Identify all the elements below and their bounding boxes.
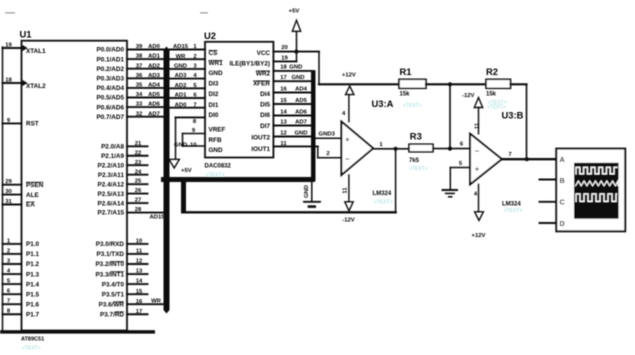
svg-text:39: 39 — [136, 44, 143, 50]
U1 pin 24 P2.3/A11 — [98, 169, 148, 179]
svg-text:U1: U1 — [20, 29, 32, 40]
svg-text:DI6: DI6 — [260, 112, 270, 119]
svg-text:C: C — [560, 198, 565, 207]
svg-text:30: 30 — [5, 189, 12, 195]
U1 pin 1 P1.0 — [3, 238, 40, 248]
svg-text:P1.6: P1.6 — [26, 301, 40, 308]
resistor R2 15k — [486, 66, 511, 98]
scan artifact dots — [5, 12, 208, 13]
U1 pin 11 P3.1/TXD — [97, 249, 148, 259]
U3:B supply TEXT placeholder — [487, 104, 506, 110]
U1 pin 10 P3.0/RXD — [96, 239, 148, 249]
junction +5V and VCC — [294, 50, 298, 54]
U3:A output wire pin 1 — [373, 142, 409, 149]
svg-text:21: 21 — [135, 141, 142, 147]
svg-text:VREF: VREF — [209, 127, 226, 134]
svg-text:<TEXT>: <TEXT> — [22, 346, 41, 352]
svg-text:26: 26 — [135, 188, 142, 194]
svg-text:R3: R3 — [410, 131, 422, 142]
svg-text:P3.3/INT1: P3.3/INT1 — [95, 271, 124, 278]
svg-text:PSEN: PSEN — [26, 182, 44, 189]
svg-text:+5V: +5V — [181, 168, 192, 174]
svg-text:AD15: AD15 — [149, 215, 165, 221]
U1 pin 12 P3.2/INT0 — [95, 259, 147, 269]
svg-text:20: 20 — [281, 45, 288, 51]
U1 pin 4 P1.3 — [3, 268, 40, 278]
U1 pin 5 P1.4 — [3, 279, 40, 289]
scope screen with waveforms — [574, 163, 619, 219]
svg-text:18: 18 — [5, 77, 12, 83]
svg-text:AD0: AD0 — [148, 44, 161, 50]
svg-text:11: 11 — [475, 122, 481, 129]
U1 pin 8 P1.7 — [3, 309, 40, 319]
U2 pin 9 RFB loop wire — [183, 128, 206, 146]
svg-text:P0.1/AD1: P0.1/AD1 — [96, 56, 124, 63]
U1 pin 35 P0.4/AD4 with net AD4 wire to bus — [96, 83, 163, 93]
U1 pin 16 P3.6/WR — [99, 299, 164, 309]
bottom border bar — [0, 330, 155, 333]
svg-text:24: 24 — [135, 169, 142, 175]
U1 pin 30 ALE — [3, 189, 39, 199]
svg-text:<TEXT>: <TEXT> — [504, 208, 523, 214]
svg-text:P3.5/T1: P3.5/T1 — [102, 291, 125, 298]
power +12V arrow below U3:B — [472, 212, 486, 239]
wire R2 to U3:B output feedback — [511, 84, 527, 159]
svg-text:-12V: -12V — [342, 217, 355, 223]
svg-text:P3.0/RXD: P3.0/RXD — [96, 241, 125, 248]
svg-text:P3.7/RD: P3.7/RD — [100, 311, 124, 318]
svg-text:AD5: AD5 — [295, 98, 308, 104]
power -12V arrow below U3:A — [342, 202, 355, 224]
svg-text:12: 12 — [280, 130, 287, 136]
svg-text:GND: GND — [174, 142, 187, 148]
svg-text:<TEXT>: <TEXT> — [487, 104, 506, 110]
U1 pin 34 P0.5/AD5 with net AD5 wire to bus — [96, 92, 163, 102]
wire bus to U2 pin 1 net AD15 — [170, 44, 206, 50]
svg-text:GND: GND — [174, 64, 187, 70]
svg-text:35: 35 — [136, 83, 143, 89]
svg-text:AD7: AD7 — [295, 119, 308, 125]
svg-text:VCC: VCC — [257, 50, 271, 57]
svg-text:LM324: LM324 — [373, 191, 392, 197]
wire -12V rail horizontal — [184, 211, 396, 213]
U2 pin label WR1 — [209, 60, 224, 67]
wire feedback node down to R3 output node — [449, 84, 451, 148]
svg-text:5: 5 — [459, 161, 463, 167]
svg-text:AD2: AD2 — [148, 63, 161, 69]
svg-text:AD5: AD5 — [148, 92, 161, 98]
svg-text:27: 27 — [135, 198, 142, 204]
svg-text:P2.5/A13: P2.5/A13 — [98, 191, 125, 198]
svg-text:AD1: AD1 — [175, 93, 188, 99]
svg-text:25: 25 — [135, 179, 142, 185]
junction U3:A output — [394, 147, 398, 151]
U2 pin label DI0 — [209, 112, 219, 119]
svg-text:IOUT2: IOUT2 — [251, 135, 270, 142]
U2 value TEXT placeholder — [206, 173, 225, 179]
svg-text:15k: 15k — [486, 91, 497, 97]
svg-text:DAC0832: DAC0832 — [205, 164, 232, 170]
U1 pin 18 XTAL2 — [3, 77, 47, 90]
svg-text:P3.1/TXD: P3.1/TXD — [97, 251, 125, 258]
svg-text:<TEXT>: <TEXT> — [403, 103, 422, 109]
power -12V arrow above U3:B — [462, 93, 483, 108]
scope channel labels A B C D — [560, 155, 565, 228]
U2 pin label GND — [209, 147, 224, 154]
svg-text:23: 23 — [135, 160, 142, 166]
U2 pin label DI5 — [260, 101, 270, 108]
svg-text:+5V: +5V — [289, 9, 300, 15]
U1 pin 15 P3.5/T1 — [102, 289, 148, 299]
bus GND vertical right of U2 — [311, 70, 316, 181]
U2 pin 13 wire net AD7 — [273, 119, 311, 125]
U1 pin 32 P0.7/AD7 with net AD7 wire to bus — [96, 111, 163, 121]
svg-text:DI2: DI2 — [209, 91, 219, 98]
svg-text:10: 10 — [190, 142, 197, 148]
U1 pin 19 XTAL1 — [3, 42, 47, 55]
svg-text:LM324: LM324 — [502, 201, 521, 207]
svg-text:IOUT1: IOUT1 — [251, 146, 270, 153]
svg-text:33: 33 — [136, 102, 143, 108]
U3:A part label LM324 — [373, 191, 393, 205]
U2 pin label DI1 — [209, 102, 219, 109]
svg-text:WR1: WR1 — [209, 60, 224, 67]
wire VCC to +12V rail corner — [319, 52, 399, 85]
svg-text:1: 1 — [379, 142, 383, 148]
svg-text:14: 14 — [280, 109, 287, 115]
svg-text:AD2: AD2 — [175, 83, 188, 89]
junction U3:B output feedback — [525, 157, 529, 161]
U2 pin label IOUT2 — [251, 135, 270, 142]
wire scope input B stub — [540, 179, 557, 181]
svg-text:P2.6/A14: P2.6/A14 — [98, 200, 125, 207]
U2 pin 20 VCC wire to +5V — [273, 45, 319, 52]
U1 pin 27 P2.6/A14 — [98, 198, 148, 208]
svg-text:P1.4: P1.4 — [26, 281, 40, 288]
U1 pin 23 P2.2/A10 — [98, 160, 148, 170]
svg-text:19: 19 — [5, 42, 12, 48]
power +12V label and arrow at U3:A pin 4 — [342, 72, 356, 121]
svg-text:28: 28 — [135, 207, 142, 213]
U3:A negative supply pin 11 wire — [343, 175, 349, 202]
U2 pin 14 wire net AD6 — [273, 109, 311, 115]
svg-text:ILE(BY1/BY2): ILE(BY1/BY2) — [229, 61, 270, 68]
R2 value TEXT placeholder — [488, 100, 507, 106]
U2 pin 18 WR2 wire net GND — [273, 65, 312, 71]
svg-text:AD0: AD0 — [175, 102, 188, 108]
U2 pin label DI6 — [260, 112, 270, 119]
wire left vertical rail — [2, 47, 4, 331]
U1 pin 14 P3.4/T0 — [102, 279, 148, 289]
U2 pin label DI2 — [209, 91, 219, 98]
svg-text:P3.2/INT0: P3.2/INT0 — [95, 261, 124, 268]
U2 pin label DI7 — [260, 123, 270, 130]
svg-text:P3.6/WR: P3.6/WR — [99, 301, 125, 308]
U1 pin 25 P2.4/A12 — [98, 179, 148, 189]
U3:B part label LM324 — [502, 201, 522, 214]
wire bus to U2 pin 5 net AD2 — [170, 83, 206, 89]
svg-text:P3.4/T0: P3.4/T0 — [102, 281, 125, 288]
U2 pin 19 ILE wire — [273, 55, 296, 61]
wire bus to U2 pin 3 net GND — [170, 64, 206, 70]
svg-text:15: 15 — [280, 98, 287, 104]
svg-text:P2.7/A15: P2.7/A15 — [98, 210, 125, 217]
svg-text:+: + — [345, 135, 349, 144]
svg-text:-12V: -12V — [462, 93, 475, 99]
svg-text:RST: RST — [26, 121, 39, 128]
U3:A noninverting input wire net GND3 — [316, 132, 341, 139]
svg-text:AD7: AD7 — [148, 111, 161, 117]
svg-text:12: 12 — [136, 259, 143, 265]
svg-text:36: 36 — [136, 73, 143, 79]
U1 pin 33 P0.6/AD6 with net AD6 wire to bus — [96, 102, 163, 112]
svg-text:+12V: +12V — [342, 72, 356, 78]
U1 pin 26 P2.5/A13 — [98, 188, 148, 198]
svg-text:22: 22 — [135, 150, 142, 156]
svg-text:37: 37 — [136, 63, 143, 69]
svg-text:EA: EA — [26, 202, 35, 209]
svg-text:29: 29 — [5, 179, 12, 185]
bus AD0-AD7 vertical between U1 and U2 — [164, 47, 170, 314]
svg-text:+: + — [475, 165, 479, 174]
U2 pin label DI3 — [209, 80, 219, 87]
svg-text:B: B — [560, 176, 565, 185]
svg-text:DI3: DI3 — [209, 80, 219, 87]
dac U2 DAC0832 body — [204, 30, 273, 170]
U2 pin label RFB — [209, 137, 222, 144]
svg-text:+12V: +12V — [472, 233, 486, 239]
junction R3 R1 node — [448, 147, 452, 151]
U2 pin label DI4 — [260, 91, 270, 98]
U1 pin 17 P3.7/RD — [100, 309, 147, 319]
svg-text:11: 11 — [343, 187, 349, 194]
svg-text:11: 11 — [136, 249, 143, 255]
U2 pin label XFER — [253, 81, 270, 88]
svg-text:A: A — [560, 155, 565, 164]
wire scope input C stub — [540, 201, 557, 203]
svg-text:GND: GND — [209, 147, 224, 154]
svg-text:11: 11 — [280, 141, 287, 147]
resistor R1 15k — [399, 66, 426, 98]
U1 pin 7 P1.6 — [3, 299, 40, 309]
wire scope input D stub — [540, 222, 557, 224]
U2 pin label VCC — [257, 50, 271, 57]
svg-text:GND: GND — [291, 75, 304, 81]
svg-text:DI5: DI5 — [260, 101, 270, 108]
resistor R3 7k5 — [409, 131, 433, 165]
svg-text:7k5: 7k5 — [409, 158, 420, 164]
U2 pin label VREF — [209, 127, 226, 134]
svg-text:DI1: DI1 — [209, 102, 219, 109]
svg-text:U3:A: U3:A — [372, 98, 394, 109]
mcu U1 AT89C51 body — [20, 29, 128, 343]
svg-text:DI4: DI4 — [260, 91, 270, 98]
U3:B noninverting input pin 5 wire to ground — [450, 161, 470, 190]
svg-text:P0.2/AD2: P0.2/AD2 — [96, 66, 124, 73]
svg-text:31: 31 — [5, 199, 12, 205]
wire U3:A output down to -12V rail outline — [395, 149, 397, 213]
U1 pin 22 P2.1/A9 — [101, 150, 147, 160]
U3:B negative supply pin 4 wire — [474, 184, 479, 211]
svg-text:15: 15 — [136, 289, 143, 295]
U1 pin 31 EA — [3, 199, 36, 209]
svg-text:XFER: XFER — [253, 81, 270, 88]
wire bus to U2 pin 2 net WR — [170, 54, 206, 60]
svg-text:10: 10 — [136, 239, 143, 245]
svg-text:AD1: AD1 — [148, 54, 161, 60]
bus GND horizontal below U2 — [161, 177, 315, 182]
svg-text:DI0: DI0 — [209, 112, 219, 119]
svg-text:P0.3/AD3: P0.3/AD3 — [96, 76, 124, 83]
svg-text:P1.2: P1.2 — [26, 261, 40, 268]
svg-text:R2: R2 — [486, 66, 498, 77]
U2 pin 11 IOUT1 wire to U3:A inverting input — [273, 141, 341, 158]
svg-text:15k: 15k — [400, 91, 411, 97]
svg-text:R1: R1 — [400, 66, 412, 77]
U2 pin 17 XFER wire net GND — [273, 75, 312, 81]
svg-text:P1.0: P1.0 — [26, 241, 40, 248]
node GND label and ground symbol below bus — [304, 182, 320, 208]
svg-text:38: 38 — [136, 54, 143, 60]
wire thick branch down from GND bus — [181, 179, 186, 214]
U1 pin 38 P0.1/AD1 with net AD1 wire to bus — [96, 54, 163, 64]
oscilloscope body — [556, 149, 625, 232]
op-amp U3:A LM324 triangle — [341, 98, 393, 175]
svg-text:AD3: AD3 — [148, 73, 161, 79]
svg-text:P0.6/AD6: P0.6/AD6 — [96, 104, 124, 111]
U2 pin label CS — [209, 50, 218, 57]
svg-text:ALE: ALE — [26, 192, 39, 199]
svg-text:U3:B: U3:B — [502, 110, 524, 121]
U2 pin 10 GND net label — [174, 142, 197, 148]
svg-text:U2: U2 — [204, 30, 216, 41]
U2 pin label ILE(BY1/BY2) — [229, 61, 270, 68]
U1 pin 28 P2.7/A15 — [98, 207, 166, 221]
svg-text:P2.3/A11: P2.3/A11 — [98, 172, 125, 179]
U3:B positive supply wire pin 11 to -12V — [475, 108, 481, 134]
svg-text:18: 18 — [280, 65, 287, 71]
svg-text:8: 8 — [193, 119, 197, 125]
U3:B output wire pin 7 to scope A — [502, 152, 557, 159]
svg-text:P2.4/A12: P2.4/A12 — [98, 181, 125, 188]
svg-text:−: − — [345, 155, 349, 164]
svg-text:14: 14 — [136, 279, 143, 285]
svg-text:RFB: RFB — [209, 137, 222, 144]
svg-text:16: 16 — [280, 86, 287, 92]
op-amp U3:B LM324 triangle — [470, 110, 524, 185]
svg-text:XTAL2: XTAL2 — [26, 83, 46, 90]
U2 pin label WR2 — [256, 71, 271, 78]
svg-text:WR: WR — [176, 54, 187, 60]
R3 value TEXT placeholder — [409, 166, 428, 172]
U1 pin 13 P3.3/INT1 — [95, 269, 147, 279]
junction R1 R2 feedback node — [448, 82, 452, 86]
U1 value label TEXT placeholder — [22, 346, 41, 352]
svg-text:WR2: WR2 — [256, 71, 271, 78]
svg-text:13: 13 — [280, 119, 287, 125]
svg-text:D: D — [560, 219, 565, 228]
U1 pin 21 P2.0/A8 — [101, 141, 147, 151]
svg-text:<TEXT>: <TEXT> — [409, 166, 428, 172]
svg-text:<TEXT>: <TEXT> — [374, 199, 393, 205]
svg-text:P0.5/AD5: P0.5/AD5 — [96, 95, 124, 102]
svg-text:19: 19 — [281, 55, 288, 61]
U2 pin label IOUT1 — [251, 146, 270, 153]
svg-text:AD4: AD4 — [148, 83, 161, 89]
U1 pin 37 P0.2/AD2 with net AD2 wire to bus — [96, 63, 163, 73]
svg-text:−: − — [475, 147, 479, 156]
svg-text:GND: GND — [209, 70, 224, 77]
svg-text:32: 32 — [136, 111, 143, 117]
svg-text:GND: GND — [304, 185, 310, 198]
svg-text:34: 34 — [136, 92, 143, 98]
U1 pin 3 P1.2 — [3, 258, 40, 268]
svg-text:AT89C51: AT89C51 — [21, 337, 44, 343]
svg-text:P1.5: P1.5 — [26, 291, 40, 298]
U2 pin 16 wire net AD4 — [273, 86, 311, 92]
svg-text:P1.1: P1.1 — [26, 251, 40, 258]
U2 pin label GND — [209, 70, 224, 77]
svg-text:7: 7 — [508, 152, 512, 158]
wire R1 to R2 — [426, 83, 486, 85]
svg-text:17: 17 — [136, 309, 143, 315]
svg-text:4: 4 — [474, 191, 478, 197]
svg-text:13: 13 — [136, 269, 143, 275]
wire bus to U2 pin 4 net AD3 — [170, 73, 206, 79]
wire bus to U2 pin 7 net AD0 — [170, 102, 206, 108]
svg-text:GND3: GND3 — [319, 132, 336, 138]
svg-text:WR: WR — [151, 299, 162, 305]
U1 pin 29 PSEN — [3, 179, 44, 189]
svg-text:4: 4 — [342, 111, 346, 117]
svg-text:6: 6 — [460, 142, 464, 148]
svg-text:AD6: AD6 — [295, 109, 308, 115]
ground symbol at U3:B input — [443, 190, 458, 197]
U1 pin 9 RST — [3, 118, 39, 128]
svg-text:P1.3: P1.3 — [26, 271, 40, 278]
U2 pin 8 VREF wire — [176, 117, 206, 158]
wire bus to U2 pin 6 net AD1 — [170, 93, 206, 99]
U2 pin 15 wire net AD5 — [273, 98, 311, 104]
svg-text:AD6: AD6 — [148, 102, 161, 108]
svg-text:P1.7: P1.7 — [26, 311, 40, 318]
U1 pin 36 P0.3/AD3 with net AD3 wire to bus — [96, 73, 163, 83]
U2 pin 12 IOUT2 wire net GND — [273, 130, 311, 136]
svg-text:P2.2/A10: P2.2/A10 — [98, 162, 125, 169]
svg-text:P2.0/A8: P2.0/A8 — [101, 144, 124, 151]
svg-text:CS: CS — [209, 50, 218, 57]
svg-text:2: 2 — [326, 151, 330, 157]
power +5V arrow at VREF — [169, 159, 192, 174]
svg-text:AD15: AD15 — [173, 44, 189, 50]
svg-text:P0.4/AD4: P0.4/AD4 — [96, 85, 124, 92]
svg-text:GND: GND — [294, 130, 307, 136]
svg-text:16: 16 — [136, 299, 143, 305]
svg-text:XTAL1: XTAL1 — [26, 48, 46, 55]
svg-text:17: 17 — [280, 75, 287, 81]
svg-text:P0.0/AD0: P0.0/AD0 — [96, 47, 124, 54]
svg-text:AD4: AD4 — [295, 86, 308, 92]
svg-text:P0.7/AD7: P0.7/AD7 — [96, 114, 124, 121]
svg-text:DI7: DI7 — [260, 123, 270, 130]
R1 value TEXT placeholder — [403, 103, 422, 109]
svg-text:P2.1/A9: P2.1/A9 — [101, 153, 124, 160]
U1 pin 6 P1.5 — [3, 289, 40, 299]
wire R3 to U3:B inverting input — [433, 142, 470, 149]
U1 pin 39 P0.0/AD0 with net AD0 wire to bus — [96, 44, 163, 54]
U1 pin 2 P1.1 — [3, 248, 40, 258]
power +5V terminal — [289, 9, 301, 62]
